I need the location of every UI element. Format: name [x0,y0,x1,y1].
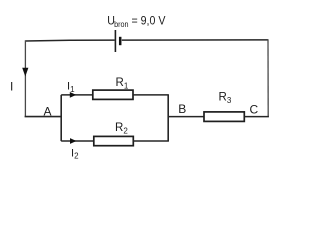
wire right vertical [267,39,269,116]
resistor R1 [93,90,133,99]
wire top branch right segment [133,94,169,96]
wire bottom branch right segment [133,140,169,142]
current arrow I [22,68,28,77]
wire right junction vertical [167,95,169,141]
wire node C horizontal [244,116,269,118]
wire left vertical [24,40,26,116]
resistor R2 [94,136,134,145]
svg-text:C: C [250,103,259,117]
current arrow I2 [70,138,76,144]
svg-text:A: A [44,105,52,119]
svg-text:I: I [10,80,13,94]
wire top-left segment [25,39,114,42]
resistor R3 [204,112,244,122]
svg-text:bron: bron [114,19,128,28]
battery U_bron [115,30,120,52]
wire left junction vertical [60,95,62,141]
wire node A horizontal [25,116,62,118]
svg-text:B: B [178,102,186,116]
current arrow I1 [70,92,76,98]
svg-text:= 9,0 V: = 9,0 V [132,15,166,28]
wire bottom branch left segment [61,140,94,142]
wire top-right segment [122,39,268,41]
label Ubron = 9,0 V [107,15,166,29]
wire node B horizontal [168,116,204,118]
wire top branch left segment [61,94,93,96]
